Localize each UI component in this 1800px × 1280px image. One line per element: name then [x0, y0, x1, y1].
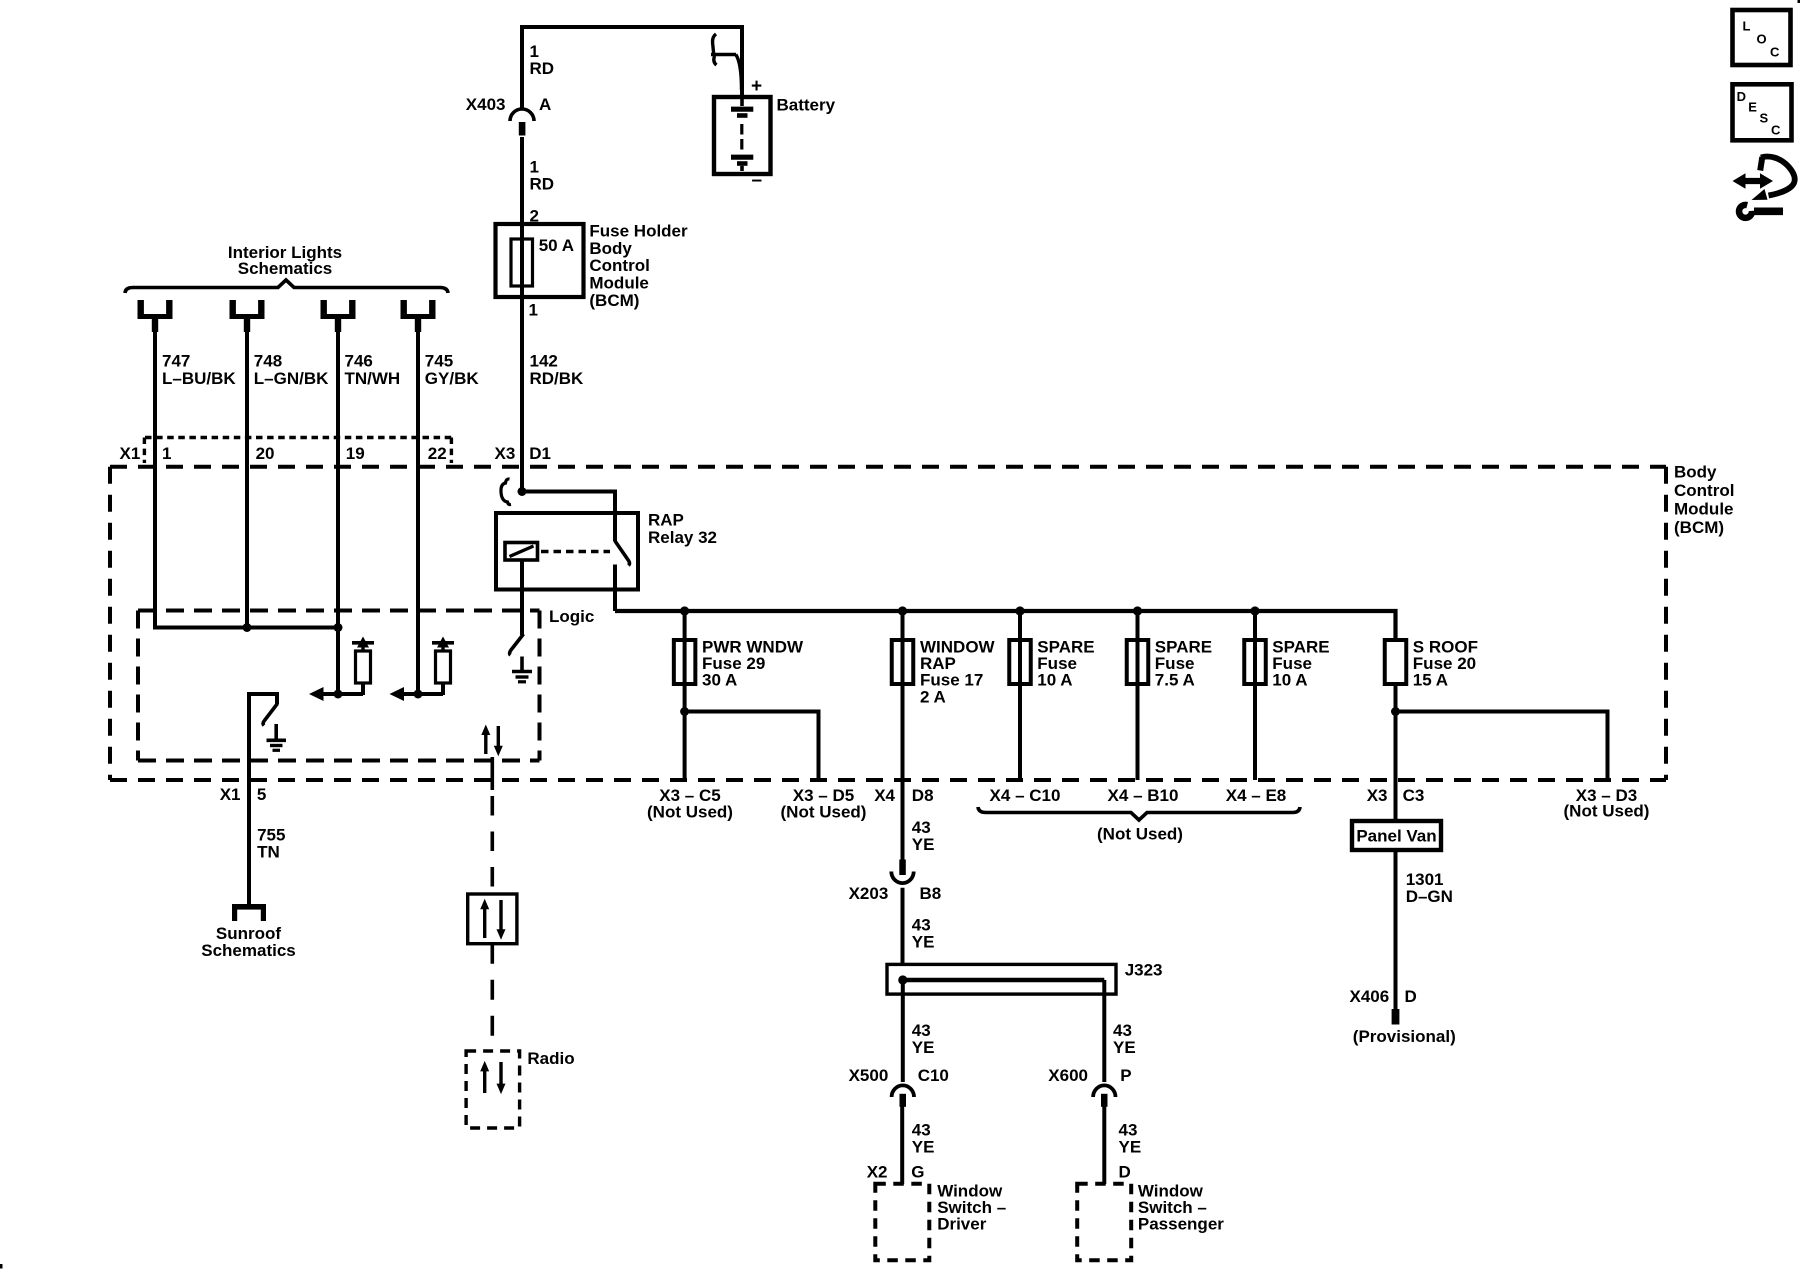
brace not used spares [978, 807, 1300, 820]
connector lamp 3 [321, 300, 356, 332]
svg-text:D–GN: D–GN [1406, 887, 1453, 906]
svg-text:B8: B8 [920, 884, 942, 903]
BCM box dashed [110, 467, 1666, 780]
svg-text:(Not Used): (Not Used) [781, 803, 867, 822]
svg-text:YE: YE [1113, 1038, 1136, 1057]
svg-text:Schematics: Schematics [201, 941, 296, 960]
svg-text:–: – [752, 170, 763, 191]
svg-text:X1: X1 [220, 785, 241, 804]
svg-text:(Not Used): (Not Used) [647, 803, 733, 822]
grommet clip on wire 142 [501, 479, 511, 505]
wire 43 YE D8 [901, 684, 905, 860]
svg-text:Module: Module [589, 274, 649, 293]
svg-text:L: L [1743, 19, 1751, 34]
junction [680, 707, 689, 716]
connector sunroof schematics stub [232, 904, 266, 921]
relay coil [505, 543, 538, 561]
wire 747 L-BU/BK [155, 330, 338, 628]
svg-text:X1: X1 [120, 444, 141, 463]
svg-text:Driver: Driver [937, 1215, 987, 1234]
wire F20 to X3-C3 [1394, 684, 1398, 821]
svg-text:YE: YE [912, 1038, 935, 1057]
svg-text:30 A: 30 A [702, 671, 737, 690]
connector lamp 1 [138, 300, 173, 332]
data link interface box [468, 894, 517, 944]
connector lamp 4 [401, 300, 436, 332]
junction bus 4 [1133, 606, 1142, 615]
svg-text:S: S [1760, 111, 1769, 126]
svg-text:D: D [1119, 1163, 1131, 1182]
page corner mark top right [1798, 0, 1800, 3]
svg-text:X4: X4 [874, 786, 895, 805]
svg-text:RD: RD [530, 175, 555, 194]
connector X600 pin P [1093, 1085, 1115, 1097]
connector lamp 2 [230, 300, 265, 332]
fusible link clip symbol [711, 34, 742, 90]
junction bus 3 [1015, 606, 1024, 615]
wire spare1 [1018, 684, 1022, 780]
svg-text:747: 747 [162, 352, 190, 371]
wire coil to logic switch [520, 560, 524, 635]
svg-text:142: 142 [530, 352, 558, 371]
wire 748 L-GN/BK [245, 330, 249, 628]
wire 43 YE to J323 [901, 888, 905, 966]
svg-text:X203: X203 [849, 884, 889, 903]
wire 43 YE to passenger switch [1102, 1107, 1106, 1185]
svg-text:C: C [1771, 123, 1781, 138]
svg-text:Fuse Holder: Fuse Holder [589, 221, 688, 240]
relay U32 box [496, 513, 638, 590]
wire spare2 [1136, 684, 1140, 780]
svg-text:745: 745 [425, 352, 453, 371]
dimmer assembly 1 arrow [309, 687, 324, 701]
svg-text:G: G [911, 1163, 924, 1182]
svg-text:748: 748 [254, 352, 282, 371]
svg-text:22: 22 [428, 444, 447, 463]
svg-text:TN/WH: TN/WH [345, 369, 401, 388]
wire 745 GY/BK [416, 330, 420, 694]
svg-text:Radio: Radio [527, 1049, 574, 1068]
loc nav box [1733, 10, 1791, 65]
relay switch blade [615, 541, 630, 566]
svg-text:10 A: 10 A [1272, 671, 1307, 690]
junction bus 1 [680, 606, 689, 615]
svg-text:19: 19 [346, 444, 365, 463]
arrows data link [480, 899, 505, 940]
wire J323 to X600 [1102, 980, 1106, 1082]
svg-text:TN: TN [257, 843, 280, 862]
svg-text:(BCM): (BCM) [1674, 518, 1724, 537]
fuse F29 PWR WNDW 30A [683, 611, 687, 684]
wire 746 TN/WH [336, 330, 340, 694]
connector X1 row [144, 438, 452, 464]
svg-text:YE: YE [912, 932, 935, 951]
svg-text:L–GN/BK: L–GN/BK [254, 369, 329, 388]
resistor R1 [361, 683, 365, 695]
logic box dashed [138, 611, 540, 761]
wire F29 to X3-D5 [685, 712, 819, 781]
wire B+ feed top [522, 25, 742, 29]
wire 755 sunroof feed [249, 694, 277, 904]
svg-text:YE: YE [912, 835, 935, 854]
svg-text:GY/BK: GY/BK [425, 369, 480, 388]
svg-text:C: C [1770, 45, 1780, 60]
svg-text:(Not Used): (Not Used) [1097, 825, 1183, 844]
junction relay coil feed [518, 487, 527, 496]
svg-text:15 A: 15 A [1413, 671, 1448, 690]
connector X500 pin C10 [892, 1085, 914, 1097]
switch sunroof logic [263, 704, 277, 726]
svg-text:A: A [539, 95, 551, 114]
svg-text:5: 5 [257, 785, 266, 804]
wire [520, 137, 524, 240]
arrows radio data link [480, 1061, 505, 1094]
svg-text:E: E [1748, 100, 1757, 115]
svg-text:+: + [751, 76, 762, 97]
junction bus 2 [898, 606, 907, 615]
svg-text:1: 1 [529, 301, 538, 320]
window switch driver box [875, 1184, 929, 1261]
svg-text:X4 – C10: X4 – C10 [990, 786, 1061, 805]
svg-text:(BCM): (BCM) [589, 291, 639, 310]
svg-text:L–BU/BK: L–BU/BK [162, 369, 236, 388]
svg-text:X4 – E8: X4 – E8 [1226, 786, 1287, 805]
splice pack J323 [887, 964, 1116, 994]
battery [714, 97, 771, 174]
arrows data link logic [481, 725, 503, 757]
svg-text:Passenger: Passenger [1138, 1215, 1224, 1234]
svg-text:Control: Control [1674, 481, 1734, 500]
svg-text:X406: X406 [1349, 987, 1389, 1006]
window switch passenger box [1077, 1184, 1131, 1261]
radio box dashed [466, 1051, 519, 1128]
svg-text:X500: X500 [849, 1066, 889, 1085]
ground logic [512, 657, 532, 682]
brace interior lights [125, 280, 448, 293]
panel van option box [1352, 821, 1441, 850]
relay actuate dashed link [541, 550, 610, 554]
svg-text:Schematics: Schematics [238, 259, 333, 278]
wire dashed to radio lower [490, 944, 494, 1051]
svg-text:Logic: Logic [549, 607, 594, 626]
wire 142 RD/BK [520, 286, 524, 493]
wire J323 to X500 [901, 980, 905, 1082]
svg-text:O: O [1757, 32, 1767, 47]
wire [520, 25, 524, 109]
svg-text:D8: D8 [912, 786, 934, 805]
wire F29 to X3-C5 [683, 684, 687, 780]
svg-text:D: D [1737, 89, 1746, 104]
svg-text:J323: J323 [1125, 961, 1163, 980]
ground sunroof logic [267, 724, 287, 750]
svg-text:YE: YE [1119, 1138, 1142, 1157]
fuse F17 WINDOW RAP 2A [901, 611, 905, 684]
svg-text:X403: X403 [466, 95, 506, 114]
fuse F20 S ROOF 15A [1385, 640, 1407, 684]
fuse holder 50A box [496, 224, 584, 297]
desc nav box [1733, 84, 1792, 140]
svg-text:746: 746 [345, 352, 373, 371]
svg-text:(Not Used): (Not Used) [1564, 802, 1650, 821]
switch logic ground blade [510, 634, 524, 655]
dimmer assembly 2 arrow [390, 687, 405, 701]
wire bus RAP relay output [615, 611, 1396, 642]
svg-text:50 A: 50 A [539, 236, 574, 255]
terminal X406 provisional [1392, 1009, 1400, 1025]
fuse spare3 10A [1253, 611, 1257, 684]
svg-text:C10: C10 [918, 1066, 949, 1085]
connector X403 [510, 109, 534, 121]
fuse spare1 10A [1018, 611, 1022, 684]
svg-text:X3: X3 [1367, 786, 1388, 805]
junction 748 [243, 623, 252, 632]
svg-text:X3: X3 [495, 444, 516, 463]
svg-text:7.5 A: 7.5 A [1155, 671, 1195, 690]
svg-text:Battery: Battery [777, 96, 836, 115]
svg-text:P: P [1120, 1066, 1131, 1085]
svg-text:(Provisional): (Provisional) [1353, 1027, 1456, 1046]
svg-text:X2: X2 [867, 1163, 888, 1182]
wire 1301 D-GN [1394, 850, 1398, 1009]
connector X203 pin B8 [899, 860, 906, 876]
wire relay output [613, 565, 617, 612]
fuse F 50A [511, 239, 533, 286]
junction [1391, 707, 1400, 716]
junction 746 [334, 623, 343, 632]
wire dashed to radio [490, 757, 494, 790]
svg-text:X600: X600 [1048, 1066, 1088, 1085]
page corner mark bottom left [0, 1264, 3, 1269]
svg-text:D1: D1 [529, 444, 551, 463]
svg-text:2 A: 2 A [920, 687, 946, 706]
svg-text:RAP: RAP [648, 511, 684, 530]
svg-text:Body: Body [589, 239, 632, 258]
junction node [334, 690, 343, 699]
svg-text:RD: RD [530, 59, 555, 78]
svg-text:Module: Module [1674, 500, 1734, 519]
wire 43 YE to driver switch [900, 1107, 904, 1185]
resistor R2 [441, 683, 445, 695]
svg-text:Relay 32: Relay 32 [648, 528, 717, 547]
wire F20 to X3-D3 [1396, 712, 1608, 781]
svg-text:X4 – B10: X4 – B10 [1108, 786, 1179, 805]
icon swap arrows and wrench [1733, 156, 1795, 217]
junction node [414, 690, 423, 699]
svg-text:C3: C3 [1403, 786, 1425, 805]
svg-text:D: D [1405, 987, 1417, 1006]
junction bus 5 [1250, 606, 1259, 615]
svg-text:Body: Body [1674, 463, 1717, 482]
svg-text:RD/BK: RD/BK [530, 369, 585, 388]
svg-text:20: 20 [256, 444, 275, 463]
svg-text:Panel Van: Panel Van [1356, 827, 1436, 846]
wire coil feed to switch [522, 492, 615, 542]
wire spare3 [1253, 684, 1257, 780]
wire battery positive lead [740, 25, 744, 97]
svg-text:Control: Control [589, 256, 649, 275]
svg-text:1: 1 [162, 444, 171, 463]
svg-text:10 A: 10 A [1037, 671, 1072, 690]
fuse spare2 7.5A [1136, 611, 1140, 684]
svg-text:YE: YE [912, 1138, 935, 1157]
